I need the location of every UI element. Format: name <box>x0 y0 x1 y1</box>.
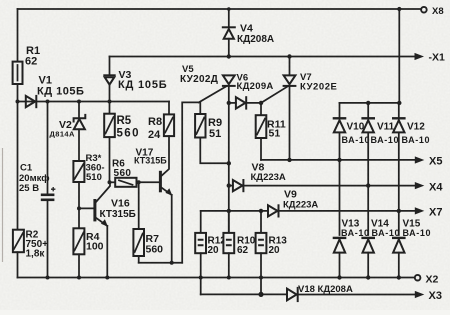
wire X5 row <box>261 159 416 161</box>
resistor R9 <box>195 103 222 140</box>
node X7 / V12 line <box>397 209 401 213</box>
wire -X1 bus <box>110 56 417 58</box>
wire R11 bottom lead <box>260 138 262 160</box>
wire V12 line continues to V15 <box>398 211 400 235</box>
wire emitter node horizontal <box>139 262 183 264</box>
wire V3 top lead from -X1 <box>109 57 111 75</box>
node -X1 / V7 <box>287 54 291 58</box>
node R12 / bus <box>199 276 203 280</box>
diode V13 <box>333 219 370 278</box>
terminal X5 arrow <box>415 156 425 163</box>
wire V11 line continues to V14 <box>367 186 369 235</box>
node V14 / bus <box>366 275 370 279</box>
wire X3 row <box>201 293 287 295</box>
wire R13 bottom through bus to X3 row <box>260 253 262 294</box>
resistor R8 <box>148 102 174 142</box>
wire R10 bottom lead <box>228 253 230 277</box>
terminal X7 arrow <box>415 207 425 214</box>
node X7 / R13 <box>259 209 263 213</box>
resistor R2 <box>13 230 48 260</box>
wire left rail upper <box>17 9 19 62</box>
wire V5 gate diagonal <box>199 86 227 102</box>
node V5 line / V6 anode <box>227 101 231 105</box>
node top bus / V4 junction <box>227 7 231 11</box>
node V8 anode <box>227 183 231 187</box>
wire R9 bottom lead <box>200 138 229 164</box>
diode V10 <box>333 103 370 160</box>
capacitor C1 <box>19 102 55 278</box>
resistor R10 <box>223 211 255 256</box>
node X4 / V11 line <box>366 183 370 187</box>
terminal X4 arrow <box>415 182 425 189</box>
node V2 tap <box>77 100 81 104</box>
wire R4 to bus <box>78 254 80 277</box>
diode V15 <box>392 219 431 278</box>
resistor R4 <box>73 228 103 254</box>
terminal X2 <box>415 275 421 281</box>
wire top bus <box>18 8 421 10</box>
node V15 / bus <box>397 275 401 279</box>
node R13 / X3 row <box>258 292 263 297</box>
diode V1 <box>26 75 85 108</box>
thyristor V5 <box>180 64 235 233</box>
node X5 / V10 line <box>337 158 341 162</box>
diode V4 <box>223 9 274 57</box>
node V17 emitter / R7 <box>170 261 174 265</box>
node V16 base tap <box>77 206 81 210</box>
wire R3 to R4 <box>78 182 80 228</box>
wire left rail lower <box>17 252 19 277</box>
node V13 / bus <box>337 275 341 279</box>
diode V8 <box>229 162 416 192</box>
wire V16 base lead <box>79 207 94 209</box>
resistor R11 <box>256 103 286 140</box>
terminal -X1 arrow <box>415 53 425 60</box>
resistor R3 <box>73 153 104 183</box>
diode V6 <box>229 73 274 109</box>
diode V14 <box>361 219 400 278</box>
node A (R5/R6/V16 collector) <box>108 180 112 184</box>
node B (R6/V17 base/R7) <box>137 180 141 184</box>
wire V5 gate drop line <box>182 102 199 262</box>
node R13 / bus <box>259 276 263 280</box>
wire V10 line continues to V13 <box>339 160 341 235</box>
diode V18 <box>287 284 416 301</box>
paper edge artifact line <box>2 148 4 262</box>
node header / V12 <box>397 101 401 105</box>
node R4 / bus <box>77 276 81 280</box>
diode V9 <box>268 189 416 217</box>
node V6 cathode / R11 / V7 gate <box>259 101 263 105</box>
zener V2 <box>50 102 86 162</box>
wire node row y=101.5 <box>18 101 170 103</box>
node V3/R5 tap <box>108 100 112 104</box>
resistor R1 <box>13 45 40 84</box>
diode V3 <box>104 69 167 102</box>
wire left rail middle <box>17 84 19 230</box>
diode V11 <box>361 103 399 186</box>
node X7 / V5 line <box>227 209 231 213</box>
node V16 emitter / bus <box>105 276 109 280</box>
diode V12 <box>392 103 430 211</box>
terminal X3 arrow <box>415 291 425 298</box>
node C1 tap <box>46 100 50 104</box>
terminal X8 <box>421 7 427 13</box>
wire right column vertical from top bus <box>398 9 400 103</box>
node X5 / V7 cathode <box>287 158 291 162</box>
transistor V16 <box>93 182 135 277</box>
node R10 / bus <box>227 276 231 280</box>
wire X7 row left <box>201 210 268 212</box>
resistor R7 <box>133 182 163 262</box>
resistor R13 <box>256 211 288 256</box>
node header / V11 <box>366 101 370 105</box>
node R9 / V5 line <box>227 161 231 165</box>
resistor R5 <box>104 102 140 140</box>
wire R12 bottom through bus to X3 row <box>200 253 202 294</box>
transistor V17 <box>134 136 172 263</box>
wire V7 gate diagonal <box>261 86 288 103</box>
resistor R12 <box>195 211 226 256</box>
thyristor V7 <box>284 57 338 160</box>
node C1 / bottom bus <box>46 276 50 280</box>
wire bottom bus <box>18 277 415 279</box>
node -X1 / V5 <box>227 54 231 58</box>
wire R5 bottom to node A <box>109 137 111 182</box>
resistor R6 (horizontal) <box>110 159 159 187</box>
node top bus / right column junction <box>397 7 401 11</box>
wire rectifier header <box>340 102 400 104</box>
